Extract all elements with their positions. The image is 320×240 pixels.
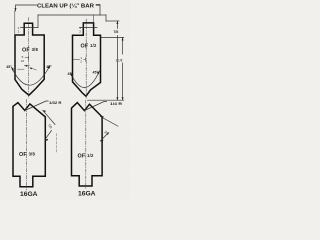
svg-text:45°: 45° [68,72,74,76]
svg-text:45°: 45° [6,65,12,69]
svg-text:45°: 45° [46,65,52,69]
svg-text:1/4 R: 1/4 R [110,102,123,106]
svg-text:16GA: 16GA [20,191,38,198]
svg-text:1/32 R: 1/32 R [49,101,62,105]
svg-text:16GA: 16GA [78,190,96,197]
svg-text:1 1/8: 1 1/8 [116,59,123,63]
svg-text:7/8: 7/8 [114,30,119,34]
svg-text:CLEAN UP (¼″ BAR: CLEAN UP (¼″ BAR [37,2,94,9]
svg-text:45°: 45° [93,71,99,75]
svg-text:16: 16 [21,59,25,63]
